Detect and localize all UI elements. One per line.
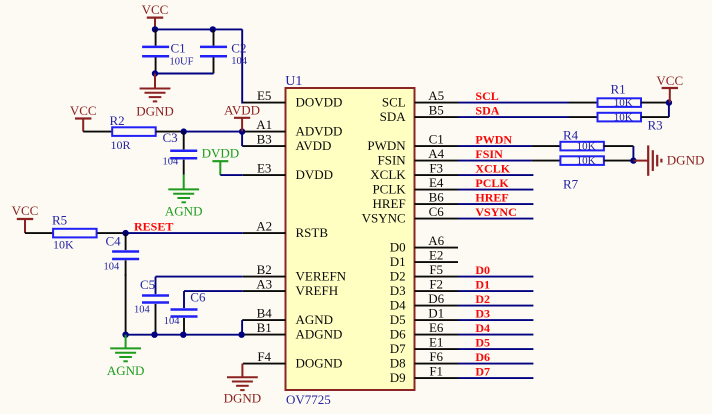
svg-text:A4: A4 xyxy=(428,146,444,161)
pin A5 SCL (right) xyxy=(382,88,458,109)
net label HREF xyxy=(475,191,508,205)
value 104 (C3) xyxy=(163,157,180,168)
net label RESET xyxy=(134,219,173,233)
pin C1 PWDN (right) xyxy=(367,132,458,153)
wire PWDN to R4 xyxy=(458,145,532,147)
junction at C1 top xyxy=(152,26,158,32)
svg-text:RSTB: RSTB xyxy=(296,225,329,240)
pin B5 SDA (right) xyxy=(380,103,458,124)
wire XCLK net xyxy=(458,174,533,176)
svg-text:F6: F6 xyxy=(429,349,443,364)
wire VCC to R2 xyxy=(83,131,112,133)
junction RESET node xyxy=(122,230,128,236)
wire AVDD node down to AVDD pin B3 xyxy=(241,132,244,147)
value 104 (C2) xyxy=(231,56,248,67)
svg-text:104: 104 xyxy=(164,316,181,327)
pin D6 D4 (right) xyxy=(390,291,458,312)
svg-text:R5: R5 xyxy=(52,213,67,228)
value 104 (C5) xyxy=(134,305,151,316)
wire D5 net xyxy=(458,348,533,350)
svg-text:AVDD: AVDD xyxy=(224,103,260,118)
wire AGND pin B4 elbow xyxy=(241,320,244,335)
value 10K (R5) xyxy=(53,238,74,252)
svg-text:D5: D5 xyxy=(390,312,406,327)
resistor R1 xyxy=(569,97,669,109)
value 104 (C6) xyxy=(164,316,181,327)
svg-text:10K: 10K xyxy=(577,155,596,167)
capacitor C5 xyxy=(142,277,169,335)
svg-text:D1: D1 xyxy=(475,277,490,291)
pin F5 D2 (right) xyxy=(390,262,458,283)
net label PWDN xyxy=(475,133,512,147)
label R4 xyxy=(563,127,579,142)
capacitor C4 xyxy=(112,233,139,276)
svg-text:F4: F4 xyxy=(257,349,271,364)
ground AGND (below C3) xyxy=(165,175,203,219)
svg-text:E6: E6 xyxy=(429,320,444,335)
svg-text:AGND: AGND xyxy=(296,312,334,327)
svg-text:VSYNC: VSYNC xyxy=(362,211,406,226)
net label D2 xyxy=(475,292,490,306)
svg-text:RESET: RESET xyxy=(134,219,173,233)
junction bus at C4 xyxy=(122,332,128,338)
wire D4 net xyxy=(458,334,533,336)
svg-text:C1: C1 xyxy=(429,132,444,147)
svg-text:PCLK: PCLK xyxy=(475,176,509,190)
svg-text:D6: D6 xyxy=(390,327,406,342)
label C2 xyxy=(231,41,246,56)
capacitor C1 xyxy=(142,29,169,73)
power DVDD xyxy=(202,146,240,176)
svg-text:C6: C6 xyxy=(429,204,445,219)
svg-text:DOGND: DOGND xyxy=(296,356,343,371)
svg-text:D6: D6 xyxy=(475,350,490,364)
svg-text:D1: D1 xyxy=(428,306,444,321)
pin A2 RSTB (left) xyxy=(243,219,329,240)
junction bus at B4 drop xyxy=(238,332,244,338)
svg-text:F3: F3 xyxy=(429,161,443,176)
pin E3 DVDD (left) xyxy=(243,161,333,182)
svg-text:DOVDD: DOVDD xyxy=(296,95,343,110)
wire SCL to R1 xyxy=(458,102,569,104)
svg-text:D4: D4 xyxy=(390,298,406,313)
svg-text:XCLK: XCLK xyxy=(370,167,406,182)
power VCC (top left) xyxy=(142,2,169,30)
capacitor C3 xyxy=(170,132,197,175)
pin E6 D6 (right) xyxy=(390,320,458,341)
svg-text:VCC: VCC xyxy=(142,2,169,17)
value 10R xyxy=(111,138,131,152)
resistor R5 xyxy=(53,229,97,238)
resistor R4 xyxy=(532,141,634,153)
pin A1 ADVDD (left) xyxy=(243,117,343,138)
svg-text:E5: E5 xyxy=(257,88,271,103)
resistor R2 xyxy=(112,127,156,136)
ground DGND (right, sideways) xyxy=(633,145,704,175)
net label SCL xyxy=(475,89,498,103)
wire C4 down to ground bus xyxy=(125,274,127,335)
junction at C2 top xyxy=(210,26,216,32)
svg-text:D7: D7 xyxy=(390,341,406,356)
value label OV7725 xyxy=(286,392,331,407)
net label D4 xyxy=(475,321,490,335)
value 10UF xyxy=(170,56,194,67)
svg-text:AGND: AGND xyxy=(165,203,203,218)
svg-text:VREFH: VREFH xyxy=(296,283,339,298)
svg-text:F1: F1 xyxy=(429,364,443,379)
svg-text:DVDD: DVDD xyxy=(296,167,334,182)
net label VSYNC xyxy=(475,205,516,219)
junction bus at C5 xyxy=(151,332,157,338)
svg-text:A1: A1 xyxy=(256,117,272,132)
svg-text:R4: R4 xyxy=(563,127,579,142)
pin B1 ADGND (left) xyxy=(243,320,343,341)
junction at C1 bottom xyxy=(152,70,158,76)
svg-text:B5: B5 xyxy=(429,103,444,118)
svg-text:D1: D1 xyxy=(390,254,406,269)
pin B6 HREF (right) xyxy=(372,190,458,211)
junction R2/C3 node xyxy=(181,128,187,134)
svg-text:10K: 10K xyxy=(614,97,633,109)
svg-text:D8: D8 xyxy=(390,356,406,371)
net label D1 xyxy=(475,277,490,291)
svg-text:D7: D7 xyxy=(475,364,490,378)
svg-text:PWDN: PWDN xyxy=(367,138,406,153)
svg-text:B3: B3 xyxy=(257,132,272,147)
pin B3 AVDD (left) xyxy=(243,132,332,153)
svg-text:E2: E2 xyxy=(429,248,443,263)
wire SDA to R3 xyxy=(458,116,569,118)
svg-text:VCC: VCC xyxy=(12,203,39,218)
svg-text:U1: U1 xyxy=(285,74,302,89)
pin F3 XCLK (right) xyxy=(370,161,458,182)
svg-text:SCL: SCL xyxy=(475,89,498,103)
label C1 xyxy=(171,41,186,56)
power VCC (at R2) xyxy=(70,103,97,132)
wire C1-C2 bottoms xyxy=(155,73,214,75)
wire VREFH pin A3 to C6 xyxy=(184,290,243,292)
net label D7 xyxy=(475,364,490,378)
label C5 xyxy=(140,277,155,292)
svg-text:ADVDD: ADVDD xyxy=(296,124,343,139)
svg-text:D0: D0 xyxy=(390,240,406,255)
wire DVDD to pin E3 xyxy=(220,174,243,176)
svg-text:C3: C3 xyxy=(163,130,178,145)
net label FSIN xyxy=(475,147,503,161)
junction bus at C6 xyxy=(180,332,186,338)
pin F2 D3 (right) xyxy=(390,277,458,298)
wire VCC to R5 xyxy=(25,232,53,234)
wire D0 net xyxy=(458,276,533,278)
svg-text:104: 104 xyxy=(231,56,248,67)
svg-text:AVDD: AVDD xyxy=(296,138,332,153)
svg-text:A6: A6 xyxy=(428,233,444,248)
wire FSIN to R7 xyxy=(458,160,532,162)
pin F6 D8 (right) xyxy=(390,349,458,370)
wire D3 net xyxy=(458,319,533,321)
svg-text:10K: 10K xyxy=(53,238,74,252)
designator U1 xyxy=(285,74,302,89)
label R7 xyxy=(563,176,579,191)
net label XCLK xyxy=(475,162,510,176)
svg-text:C5: C5 xyxy=(140,277,155,292)
svg-text:B4: B4 xyxy=(257,306,273,321)
pin D1 D5 (right) xyxy=(390,306,458,327)
wire RESET node to RSTB pin A2 xyxy=(126,232,243,234)
label R5 xyxy=(52,213,67,228)
net label D0 xyxy=(475,263,490,277)
svg-text:HREF: HREF xyxy=(372,196,405,211)
svg-text:10K: 10K xyxy=(614,112,633,124)
svg-text:D9: D9 xyxy=(390,370,406,385)
svg-text:SCL: SCL xyxy=(382,95,406,110)
pin A6 D0 (right) xyxy=(390,233,458,254)
svg-text:VEREFN: VEREFN xyxy=(296,269,347,284)
wire VEREFN pin B2 to C5 xyxy=(156,276,243,278)
junction VCC pullup node xyxy=(666,99,672,105)
wire rail corner down to DOVDD pin E5 xyxy=(241,29,242,103)
svg-text:10K: 10K xyxy=(577,141,596,153)
wire D2 net xyxy=(458,305,533,307)
svg-text:C6: C6 xyxy=(190,290,206,305)
label R3 xyxy=(648,118,663,133)
power AVDD xyxy=(224,103,260,132)
power VCC (at R5) xyxy=(12,203,39,233)
svg-text:104: 104 xyxy=(163,157,180,168)
wire R3 up to VCC node xyxy=(668,103,670,118)
svg-text:D3: D3 xyxy=(390,283,406,298)
pin B2 VEREFN (left) xyxy=(243,262,347,283)
resistor R7 xyxy=(532,155,634,167)
svg-text:R1: R1 xyxy=(611,81,626,96)
pin E2 D1 (right) xyxy=(390,248,458,269)
pin A4 FSIN (right) xyxy=(378,146,458,167)
wire D6 net xyxy=(458,363,533,365)
svg-text:R3: R3 xyxy=(648,118,663,133)
svg-text:F2: F2 xyxy=(429,277,443,292)
svg-text:D3: D3 xyxy=(475,306,490,320)
svg-text:HREF: HREF xyxy=(475,191,508,205)
svg-text:D0: D0 xyxy=(475,263,490,277)
power VCC (top right) xyxy=(656,73,683,103)
svg-text:OV7725: OV7725 xyxy=(286,392,331,407)
pin F4 DOGND (left) xyxy=(243,349,343,370)
svg-text:D6: D6 xyxy=(428,291,444,306)
ground AGND (bottom) xyxy=(107,335,145,378)
svg-text:VCC: VCC xyxy=(656,73,683,88)
net label D3 xyxy=(475,306,490,320)
ground DGND (below C1) xyxy=(136,74,174,119)
svg-text:D2: D2 xyxy=(475,292,490,306)
wire VSYNC net xyxy=(458,218,533,220)
wire R2 lead to node xyxy=(156,131,184,133)
svg-text:10UF: 10UF xyxy=(170,56,194,67)
svg-text:FSIN: FSIN xyxy=(378,153,407,168)
svg-text:D4: D4 xyxy=(475,321,490,335)
net label D5 xyxy=(475,335,490,349)
wire D7 net xyxy=(458,377,533,379)
svg-text:C2: C2 xyxy=(231,41,246,56)
svg-text:C1: C1 xyxy=(171,41,186,56)
wire PCLK net xyxy=(458,189,533,191)
svg-text:R2: R2 xyxy=(110,113,125,128)
op-amp U1 OV7725 camera IC body xyxy=(286,88,415,390)
wire ground bus xyxy=(126,334,243,336)
svg-text:A5: A5 xyxy=(428,88,444,103)
svg-text:B2: B2 xyxy=(257,262,272,277)
svg-text:D2: D2 xyxy=(390,269,406,284)
net label SDA xyxy=(475,104,499,118)
svg-text:D5: D5 xyxy=(475,335,490,349)
svg-text:B1: B1 xyxy=(257,320,272,335)
svg-text:PCLK: PCLK xyxy=(372,182,406,197)
svg-text:E4: E4 xyxy=(429,175,444,190)
svg-text:104: 104 xyxy=(104,262,121,273)
net label D6 xyxy=(475,350,490,364)
label C3 xyxy=(163,130,178,145)
pin C6 VSYNC (right) xyxy=(362,204,458,225)
label C6 xyxy=(190,290,206,305)
pin E4 PCLK (right) xyxy=(372,175,458,196)
svg-text:DVDD: DVDD xyxy=(202,146,240,161)
wire VCC rail to C2 xyxy=(155,28,242,30)
svg-text:VSYNC: VSYNC xyxy=(475,205,516,219)
label R1 xyxy=(611,81,626,96)
svg-text:E3: E3 xyxy=(257,161,271,176)
wire R4 down to R7 node xyxy=(632,146,634,161)
svg-text:SDA: SDA xyxy=(475,104,499,118)
pin F1 D9 (right) xyxy=(390,364,458,385)
svg-text:SDA: SDA xyxy=(380,109,407,124)
pin B4 AGND (left) xyxy=(243,306,333,327)
svg-text:C4: C4 xyxy=(106,233,122,248)
capacitor C2 xyxy=(200,29,227,73)
svg-text:XCLK: XCLK xyxy=(475,162,510,176)
svg-text:B6: B6 xyxy=(429,190,445,205)
wire node to ADVDD pin A1 xyxy=(184,131,243,133)
svg-text:DGND: DGND xyxy=(224,391,262,406)
svg-text:E1: E1 xyxy=(429,335,443,350)
resistor R3 xyxy=(569,112,669,124)
value 104 (C4) xyxy=(104,262,121,273)
ground DGND (below F4) xyxy=(224,364,262,406)
svg-text:R7: R7 xyxy=(563,176,579,191)
svg-text:A2: A2 xyxy=(256,219,272,234)
wire R5 lead to node xyxy=(97,232,125,234)
svg-text:A3: A3 xyxy=(256,277,272,292)
junction pulldown node xyxy=(630,157,636,163)
pin E5 DOVDD (left) xyxy=(243,88,343,109)
capacitor C6 xyxy=(171,291,198,335)
svg-text:10R: 10R xyxy=(111,138,131,152)
net label PCLK xyxy=(475,176,509,190)
svg-text:FSIN: FSIN xyxy=(475,147,503,161)
svg-text:VCC: VCC xyxy=(70,103,97,118)
svg-text:DGND: DGND xyxy=(667,152,705,167)
svg-text:PWDN: PWDN xyxy=(475,133,512,147)
svg-text:ADGND: ADGND xyxy=(296,327,343,342)
wire D1 net xyxy=(458,290,533,292)
svg-text:104: 104 xyxy=(134,305,151,316)
wire HREF net xyxy=(458,203,533,205)
junction AVDD node xyxy=(239,128,245,134)
pin A3 VREFH (left) xyxy=(243,277,338,298)
svg-text:AGND: AGND xyxy=(107,363,145,378)
label R2 xyxy=(110,113,125,128)
svg-text:F5: F5 xyxy=(429,262,443,277)
label C4 xyxy=(106,233,122,248)
pin E1 D7 (right) xyxy=(390,335,458,356)
svg-text:DGND: DGND xyxy=(136,103,174,118)
